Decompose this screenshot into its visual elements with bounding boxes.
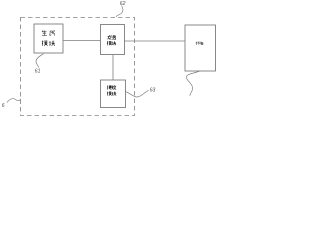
svg-text:63: 63 xyxy=(150,88,156,94)
text 模块 xyxy=(107,41,111,45)
svg-text:61: 61 xyxy=(35,68,41,74)
label 62 leader xyxy=(116,6,123,17)
svg-text:62: 62 xyxy=(120,1,126,7)
wire: sending module to terminal xyxy=(125,40,186,42)
wire: generation module to sending module xyxy=(63,40,101,42)
label 61 leader xyxy=(36,54,44,68)
wire: sending module to receiving module xyxy=(112,55,114,81)
module box 发送模块 (sending module 62) xyxy=(101,25,125,55)
text 发送 xyxy=(108,35,112,39)
label 63 leader xyxy=(126,90,149,97)
text 接收 xyxy=(107,85,111,89)
module box 生成模块 (generation module 61) xyxy=(34,24,63,53)
label 6 leader xyxy=(7,99,21,103)
svg-text:6: 6 xyxy=(2,103,5,109)
text 终端 xyxy=(196,42,203,45)
terminal leader line xyxy=(186,71,199,96)
terminal box 终端 xyxy=(185,25,216,71)
text 模块 xyxy=(42,41,48,46)
text 模块 xyxy=(107,92,111,96)
outer dashed box (apparatus 6 boundary) xyxy=(21,18,135,116)
text 生成 xyxy=(42,30,55,35)
module box 接收模块 (receiving module 63) xyxy=(101,80,126,108)
